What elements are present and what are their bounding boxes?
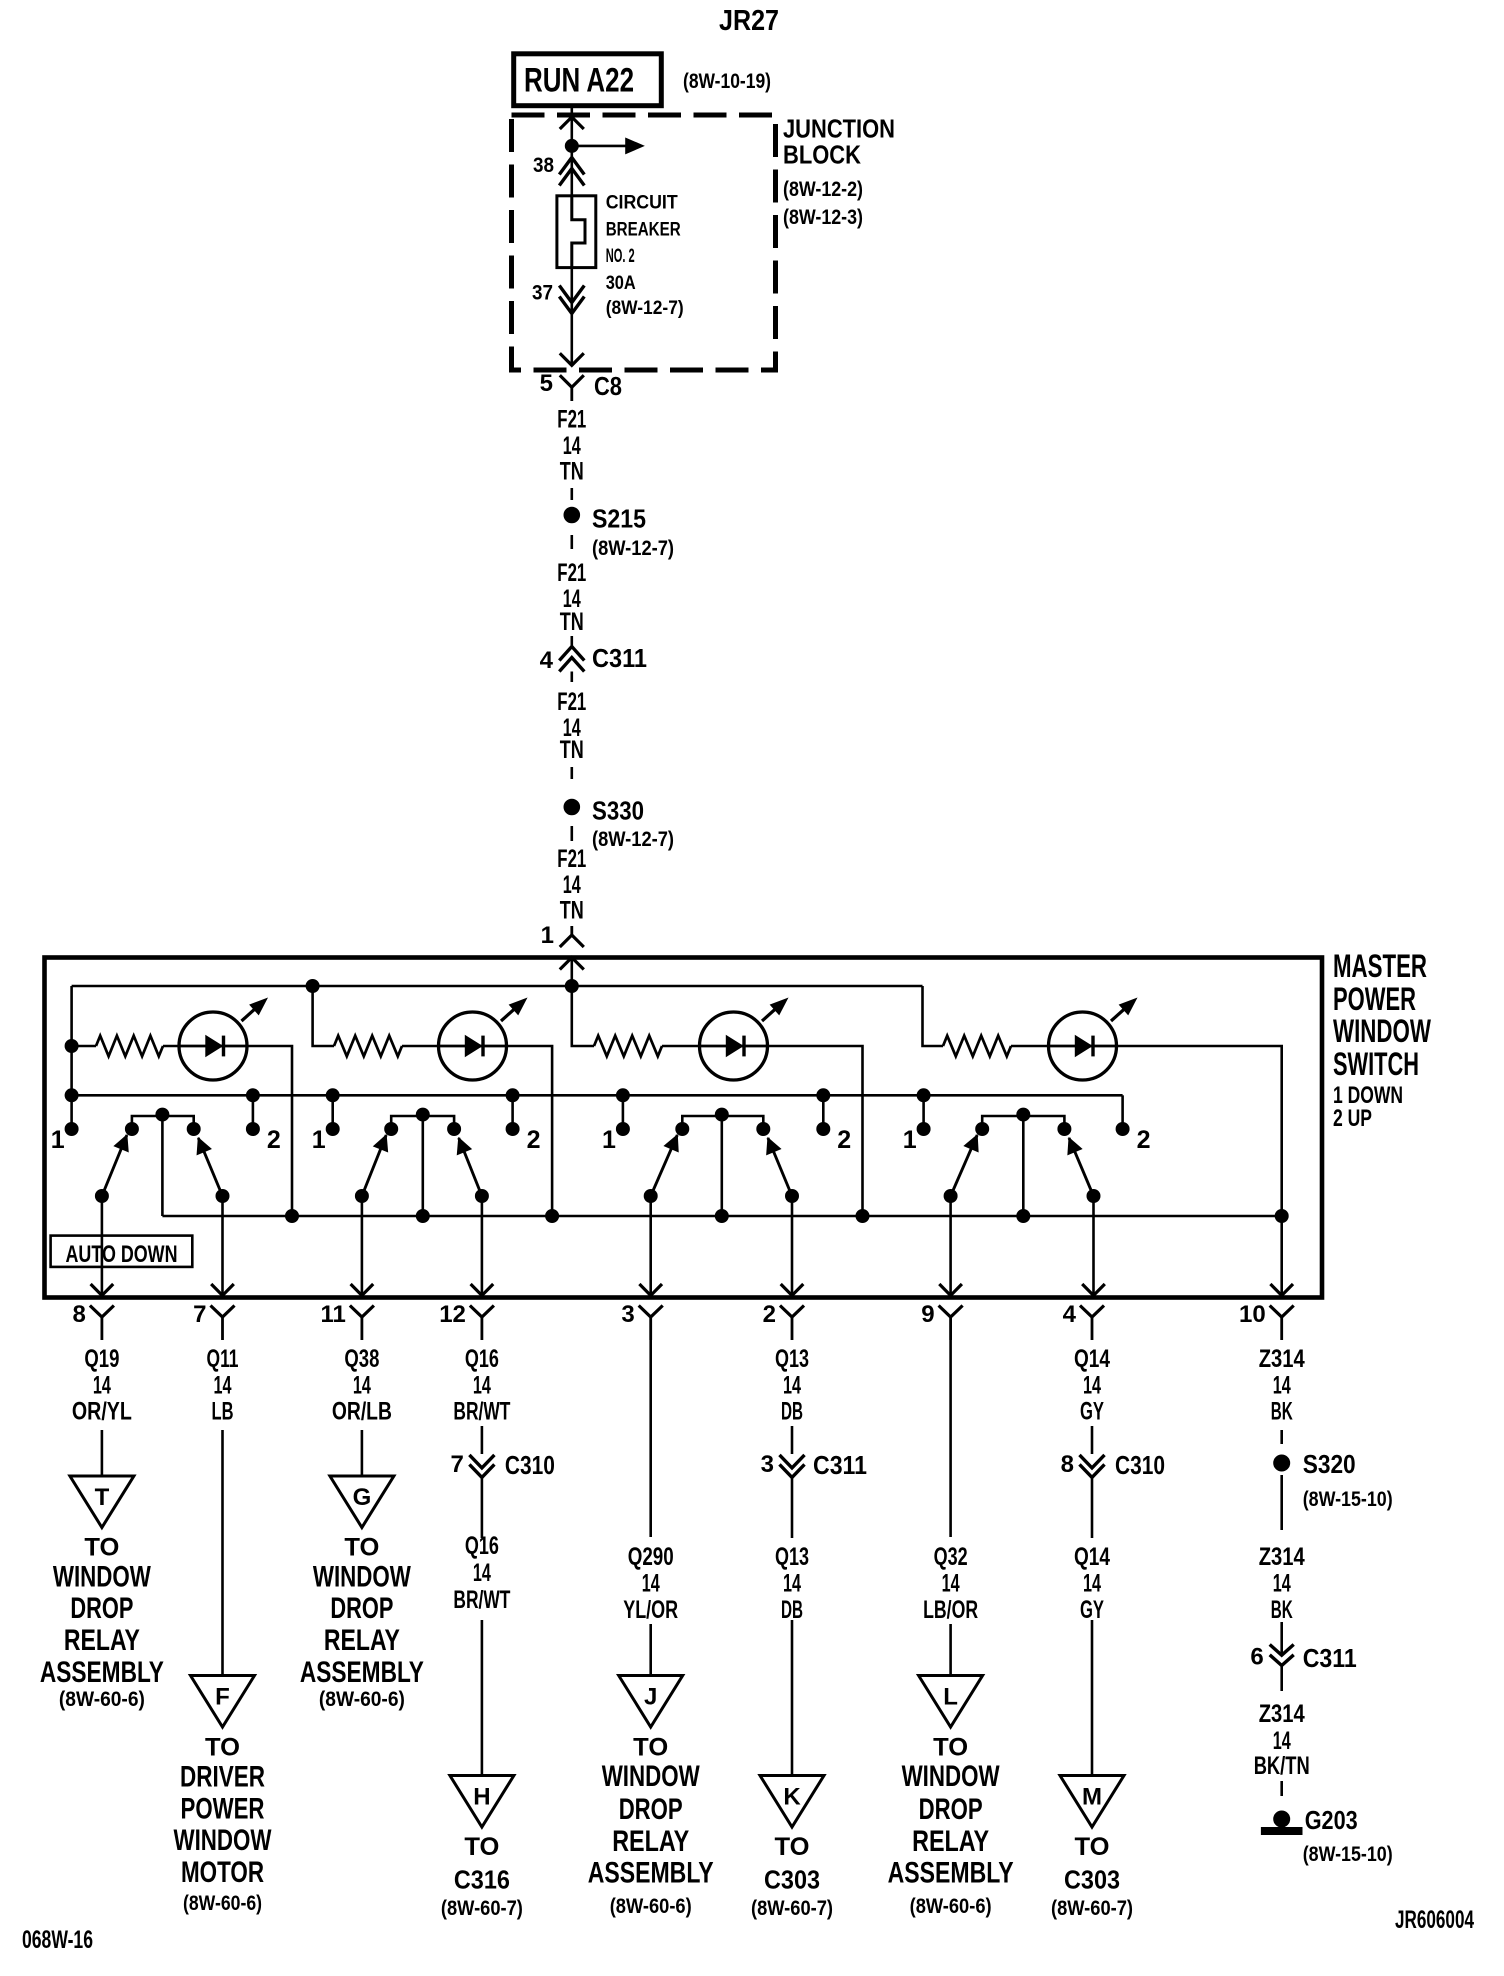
connector pin 9 below switch — [921, 1301, 962, 1340]
contact 1 stub section 4 — [917, 1089, 930, 1129]
wire — [481, 1478, 484, 1538]
svg-text:12: 12 — [439, 1301, 466, 1328]
svg-text:WINDOW: WINDOW — [602, 1760, 701, 1793]
svg-text:2: 2 — [527, 1126, 541, 1154]
wire dash — [570, 488, 573, 500]
svg-text:14: 14 — [563, 871, 581, 899]
wire LED return section 2 — [506, 1046, 553, 1216]
wire resistor to LED section 2 — [402, 1045, 440, 1048]
svg-text:10: 10 — [1239, 1301, 1266, 1328]
svg-text:C8: C8 — [594, 371, 622, 401]
contact 1 section 3 — [602, 1123, 629, 1155]
LED indicator section 1 — [179, 998, 267, 1080]
svg-text:14: 14 — [473, 1372, 491, 1400]
wiper left section 1 — [91, 1135, 129, 1296]
svg-text:BR/WT: BR/WT — [453, 1586, 510, 1614]
LED indicator section 4 — [1049, 998, 1137, 1080]
wire dash — [1280, 1430, 1283, 1444]
connector pin 8 below switch — [73, 1301, 114, 1340]
svg-text:2: 2 — [763, 1301, 776, 1328]
svg-text:(8W-12-7): (8W-12-7) — [592, 828, 674, 851]
svg-text:(8W-12-3): (8W-12-3) — [783, 206, 863, 229]
wire label F21 14 TN — [557, 559, 586, 636]
wire — [481, 1426, 484, 1454]
svg-text:7: 7 — [193, 1301, 206, 1328]
connector F — [191, 1676, 255, 1728]
wiper right section 1 — [197, 1138, 234, 1296]
wire — [649, 1340, 652, 1537]
wiper left section 2 — [351, 1135, 388, 1296]
svg-text:BK/TN: BK/TN — [1254, 1752, 1310, 1780]
svg-text:GY: GY — [1080, 1596, 1104, 1624]
svg-text:F: F — [215, 1684, 230, 1711]
svg-text:F21: F21 — [557, 559, 586, 587]
svg-text:C310: C310 — [1115, 1450, 1165, 1480]
contact 2 stub section 4 (bus end) — [1121, 1095, 1124, 1129]
destination window drop relay assembly (T) — [40, 1534, 164, 1712]
node top bus section 3 — [565, 980, 578, 993]
wire — [1091, 1426, 1094, 1454]
node resistor tap section 1 — [65, 1040, 78, 1053]
top supply bus inside switch — [72, 985, 923, 988]
svg-text:(8W-15-10): (8W-15-10) — [1303, 1488, 1393, 1511]
wire label Z314 14 BK — [1259, 1543, 1305, 1624]
svg-text:C311: C311 — [1303, 1643, 1357, 1673]
node LED return on lower bus section 1 — [286, 1210, 299, 1223]
svg-text:G203: G203 — [1305, 1805, 1358, 1835]
svg-text:WINDOW: WINDOW — [313, 1561, 412, 1594]
contact 2 section 4 — [1116, 1123, 1150, 1155]
wire — [949, 1624, 952, 1676]
node LED return on lower bus section 2 — [546, 1210, 559, 1223]
svg-text:WINDOW: WINDOW — [53, 1561, 152, 1594]
svg-text:NO. 2: NO. 2 — [606, 246, 635, 267]
wire label Q290 14 YL/OR — [623, 1543, 678, 1624]
contact 2 stub section 3 — [817, 1089, 830, 1129]
wiper right section 2 — [457, 1138, 493, 1296]
wire label Q16 14 BR/WT — [453, 1532, 510, 1614]
svg-text:Q16: Q16 — [465, 1345, 499, 1373]
svg-text:DROP: DROP — [919, 1793, 983, 1826]
wire — [1091, 1620, 1094, 1776]
svg-text:14: 14 — [1273, 1372, 1291, 1400]
wiper right section 4 — [1068, 1138, 1105, 1296]
svg-text:LB/OR: LB/OR — [923, 1596, 978, 1624]
drawing number JR606004 — [1395, 1906, 1474, 1934]
svg-text:14: 14 — [783, 1372, 801, 1400]
svg-text:RELAY: RELAY — [612, 1825, 689, 1858]
svg-text:DROP: DROP — [70, 1592, 133, 1625]
svg-text:11: 11 — [321, 1301, 346, 1328]
connector pin 7 below switch — [193, 1301, 234, 1340]
svg-text:14: 14 — [214, 1372, 232, 1400]
wire — [481, 1620, 484, 1776]
svg-text:C303: C303 — [764, 1865, 820, 1895]
svg-text:14: 14 — [942, 1570, 960, 1598]
svg-text:RELAY: RELAY — [912, 1825, 989, 1858]
splice S320 — [1274, 1449, 1393, 1511]
connector pin 11 below switch — [321, 1301, 374, 1340]
svg-text:Q14: Q14 — [1074, 1543, 1110, 1571]
svg-text:Z314: Z314 — [1259, 1543, 1305, 1571]
connector C311 pin 4 — [540, 636, 647, 682]
wire feed section 3 — [572, 986, 594, 1046]
svg-text:(8W-60-6): (8W-60-6) — [183, 1892, 262, 1915]
wire — [1280, 1666, 1283, 1691]
connector L — [919, 1676, 983, 1728]
wire — [1091, 1478, 1094, 1538]
svg-text:6: 6 — [1250, 1644, 1263, 1671]
bridge common to lower bus section 2 — [416, 1116, 429, 1223]
connector C311 pin 6 — [1250, 1643, 1356, 1673]
svg-text:4: 4 — [1063, 1301, 1077, 1328]
svg-text:TO: TO — [344, 1534, 379, 1562]
svg-text:H: H — [473, 1784, 490, 1811]
svg-text:LB: LB — [212, 1398, 234, 1426]
circuit breaker No. 2 30A — [557, 193, 684, 319]
svg-text:F21: F21 — [557, 688, 586, 716]
junction block label — [783, 114, 895, 229]
resistor section 3 — [594, 1036, 662, 1057]
svg-text:C311: C311 — [592, 643, 647, 673]
svg-text:3: 3 — [621, 1301, 634, 1328]
wire label Q32 14 LB/OR — [923, 1543, 978, 1624]
svg-text:14: 14 — [473, 1559, 491, 1587]
wire label Q14 14 GY — [1074, 1345, 1110, 1426]
wiper left section 4 — [939, 1135, 978, 1296]
svg-text:BK: BK — [1271, 1398, 1293, 1426]
bridge common to lower bus section 4 — [1017, 1116, 1030, 1223]
destination C303 (K) — [751, 1833, 833, 1920]
svg-text:Q290: Q290 — [628, 1543, 674, 1571]
bridge common to lower bus section 3 — [715, 1116, 728, 1223]
contact 2 section 2 — [506, 1123, 540, 1155]
wire feed section 4 — [923, 986, 944, 1046]
wire — [1280, 1622, 1283, 1654]
connector pin 12 below switch — [439, 1301, 494, 1340]
wire — [361, 1430, 364, 1476]
svg-text:Q38: Q38 — [344, 1345, 379, 1373]
splice S330 — [564, 796, 674, 852]
svg-text:Z314: Z314 — [1259, 1700, 1305, 1728]
node LED return on lower bus section 3 — [856, 1210, 869, 1223]
svg-text:(8W-60-6): (8W-60-6) — [319, 1688, 405, 1711]
svg-text:WINDOW: WINDOW — [1333, 1013, 1432, 1049]
wire label Q14 14 GY — [1074, 1543, 1110, 1624]
wire — [221, 1430, 224, 1676]
svg-text:Q14: Q14 — [1074, 1345, 1110, 1373]
svg-text:Q32: Q32 — [934, 1543, 968, 1571]
connector C310 pin 7 — [451, 1450, 555, 1480]
svg-text:TO: TO — [84, 1534, 119, 1562]
svg-text:Z314: Z314 — [1259, 1345, 1305, 1373]
svg-text:C310: C310 — [505, 1450, 555, 1480]
ignition switch output RUN A22 — [514, 54, 662, 106]
svg-text:(8W-15-10): (8W-15-10) — [1303, 1843, 1393, 1866]
svg-text:BK: BK — [1271, 1596, 1293, 1624]
wire — [1280, 1475, 1283, 1530]
svg-text:DROP: DROP — [330, 1592, 393, 1625]
svg-text:14: 14 — [783, 1570, 801, 1598]
svg-text:SWITCH: SWITCH — [1333, 1046, 1419, 1082]
wire label F21 14 TN — [557, 406, 586, 486]
wire LED return section 1 — [246, 1046, 292, 1216]
svg-text:(8W-60-6): (8W-60-6) — [610, 1895, 692, 1918]
connector C310 pin 8 — [1061, 1450, 1165, 1480]
svg-text:BR/WT: BR/WT — [453, 1398, 510, 1426]
svg-text:OR/LB: OR/LB — [332, 1398, 392, 1426]
svg-text:37: 37 — [532, 282, 553, 305]
wire label Q11 14 LB — [207, 1345, 239, 1426]
wire label F21 14 TN — [557, 845, 586, 924]
wire label Q13 14 DB — [775, 1345, 809, 1426]
wiper left section 3 — [639, 1135, 678, 1296]
contact 2 stub section 1 — [246, 1089, 259, 1129]
svg-text:068W-16: 068W-16 — [22, 1926, 93, 1954]
contact 1 stub section 3 — [616, 1089, 629, 1129]
svg-text:F21: F21 — [557, 845, 586, 873]
contact 1 section 1 — [51, 1123, 78, 1155]
node bus tap section 1 — [65, 1089, 78, 1102]
connector C8 pin 5 — [540, 370, 622, 401]
svg-text:TN: TN — [560, 608, 584, 636]
wire feed section 2 — [313, 986, 334, 1046]
wire LED return section 4 — [1116, 1046, 1282, 1216]
svg-text:TN: TN — [560, 896, 584, 924]
svg-text:POWER: POWER — [1333, 981, 1416, 1017]
svg-text:Q13: Q13 — [775, 1345, 809, 1373]
svg-text:G: G — [353, 1484, 372, 1511]
connector pin 1 into master switch — [541, 922, 584, 949]
sheet number 068W-16 — [22, 1926, 93, 1954]
title JR27 — [719, 5, 779, 37]
svg-text:TN: TN — [560, 736, 584, 764]
svg-text:BREAKER: BREAKER — [606, 220, 681, 241]
svg-text:(8W-12-7): (8W-12-7) — [592, 537, 674, 560]
wire label Q38 14 OR/LB — [332, 1345, 392, 1426]
svg-text:2 UP: 2 UP — [1333, 1105, 1372, 1132]
connector C311 pin 3 — [761, 1450, 867, 1480]
svg-text:TO: TO — [933, 1734, 968, 1762]
svg-text:14: 14 — [1273, 1727, 1291, 1755]
connector pin 3 below switch — [621, 1301, 662, 1340]
connector G — [330, 1476, 394, 1528]
connector pin 10 below switch — [1239, 1301, 1294, 1340]
wire — [949, 1340, 952, 1537]
connector pin 2 below switch — [763, 1301, 804, 1340]
rocker bridge section 4 — [976, 1108, 1071, 1135]
master power window switch box — [45, 958, 1323, 1298]
svg-text:ASSEMBLY: ASSEMBLY — [300, 1656, 424, 1689]
svg-text:38: 38 — [533, 154, 554, 177]
svg-text:M: M — [1082, 1784, 1102, 1811]
svg-text:8: 8 — [73, 1301, 86, 1328]
svg-text:S320: S320 — [1303, 1449, 1356, 1479]
svg-text:(8W-60-6): (8W-60-6) — [910, 1895, 992, 1918]
svg-text:2: 2 — [267, 1126, 281, 1154]
connector K — [760, 1776, 824, 1828]
svg-text:ASSEMBLY: ASSEMBLY — [40, 1656, 164, 1689]
wire feed section 1 — [72, 986, 96, 1129]
svg-text:RELAY: RELAY — [324, 1624, 400, 1657]
svg-text:TO: TO — [633, 1734, 668, 1762]
svg-text:J: J — [644, 1684, 657, 1711]
LED indicator section 2 — [439, 998, 527, 1080]
bridge common to lower bus section 1 — [161, 1116, 164, 1216]
wire LED return section 3 — [767, 1046, 863, 1216]
svg-text:F21: F21 — [557, 406, 586, 434]
svg-text:CIRCUIT: CIRCUIT — [606, 193, 678, 214]
wire — [791, 1478, 794, 1538]
svg-text:1: 1 — [51, 1126, 65, 1154]
svg-text:5: 5 — [540, 370, 553, 397]
svg-text:(8W-60-7): (8W-60-7) — [751, 1897, 833, 1920]
resistor section 1 — [96, 1036, 163, 1057]
wire resistor to LED section 3 — [662, 1045, 701, 1048]
svg-text:DB: DB — [781, 1398, 803, 1426]
destination window drop relay assembly (J) — [588, 1734, 714, 1918]
wire — [101, 1430, 104, 1476]
svg-text:14: 14 — [1083, 1570, 1101, 1598]
contact 2 section 1 — [246, 1123, 280, 1155]
svg-text:Q16: Q16 — [465, 1532, 499, 1560]
svg-text:POWER: POWER — [181, 1793, 265, 1826]
wire label Z314 14 BK — [1259, 1345, 1305, 1426]
destination C303 (M) — [1051, 1833, 1133, 1920]
connector H — [450, 1776, 514, 1828]
node: junction block feed — [565, 139, 578, 152]
svg-text:Q13: Q13 — [775, 1543, 809, 1571]
svg-text:1: 1 — [602, 1126, 616, 1154]
wire label F21 14 TN — [557, 688, 586, 764]
connector M — [1060, 1776, 1124, 1828]
svg-text:2: 2 — [837, 1126, 851, 1154]
pin 37 with double chevron — [532, 268, 584, 366]
svg-text:BLOCK: BLOCK — [783, 140, 861, 170]
wire resistor to LED section 1 — [163, 1045, 180, 1048]
pin 38 with double chevron — [533, 146, 584, 196]
svg-text:(8W-60-7): (8W-60-7) — [441, 1897, 523, 1920]
svg-text:4: 4 — [540, 647, 554, 674]
node top bus section 2 — [306, 980, 319, 993]
auto down box — [51, 1236, 193, 1268]
wiper right section 3 — [767, 1138, 804, 1296]
node LED return on lower bus section 4 — [1275, 1210, 1288, 1223]
ground G203 — [1261, 1805, 1392, 1866]
svg-text:3: 3 — [761, 1451, 774, 1478]
svg-text:(8W-60-6): (8W-60-6) — [59, 1688, 145, 1711]
junction block dashed box — [512, 115, 776, 370]
reference (8W-10-19) — [683, 70, 771, 93]
wire dash — [570, 767, 573, 779]
svg-text:14: 14 — [1083, 1372, 1101, 1400]
contact 1 stub section 2 — [326, 1089, 339, 1129]
svg-text:DROP: DROP — [619, 1793, 683, 1826]
svg-text:DRIVER: DRIVER — [180, 1760, 265, 1793]
svg-text:DB: DB — [781, 1596, 803, 1624]
svg-text:TO: TO — [775, 1833, 810, 1861]
contact 1 section 4 — [903, 1123, 930, 1155]
wire — [791, 1620, 794, 1776]
svg-text:2: 2 — [1137, 1126, 1151, 1154]
svg-text:T: T — [95, 1484, 110, 1511]
contact 2 section 3 — [817, 1123, 851, 1155]
connector T — [70, 1476, 134, 1528]
wire dash — [1280, 1781, 1283, 1796]
svg-text:MOTOR: MOTOR — [181, 1856, 264, 1889]
wire feed entering box at pin 1 — [560, 958, 584, 987]
wire label Z314 14 BK/TN — [1254, 1700, 1310, 1780]
contact feed bus — [72, 1094, 1123, 1097]
svg-text:ASSEMBLY: ASSEMBLY — [588, 1857, 714, 1890]
svg-text:(8W-12-7): (8W-12-7) — [606, 298, 684, 319]
svg-text:14: 14 — [353, 1372, 371, 1400]
svg-text:YL/OR: YL/OR — [623, 1596, 678, 1624]
master power window switch label — [1333, 948, 1432, 1132]
svg-text:(8W-60-7): (8W-60-7) — [1051, 1897, 1133, 1920]
svg-text:S215: S215 — [592, 503, 646, 533]
rocker bridge section 1 — [125, 1108, 200, 1135]
svg-text:(8W-10-19): (8W-10-19) — [683, 70, 771, 93]
LED indicator section 3 — [700, 998, 788, 1080]
svg-text:RUN A22: RUN A22 — [524, 62, 634, 100]
svg-text:Q19: Q19 — [84, 1345, 119, 1373]
connector J — [619, 1676, 683, 1728]
wire — [649, 1624, 652, 1676]
contact 2 stub section 2 — [506, 1089, 519, 1129]
svg-text:C311: C311 — [813, 1450, 867, 1480]
destination C316 (H) — [441, 1833, 523, 1920]
resistor section 4 — [943, 1036, 1011, 1057]
svg-text:7: 7 — [451, 1451, 464, 1478]
svg-text:1: 1 — [903, 1126, 917, 1154]
svg-text:TN: TN — [560, 458, 584, 486]
svg-text:RELAY: RELAY — [64, 1624, 140, 1657]
svg-text:30A: 30A — [606, 273, 636, 294]
destination window drop relay assembly (L) — [888, 1734, 1014, 1918]
rocker bridge section 2 — [385, 1108, 461, 1135]
svg-text:14: 14 — [563, 432, 581, 460]
svg-text:JR27: JR27 — [719, 5, 779, 37]
splice S215 — [564, 503, 674, 560]
svg-text:C316: C316 — [454, 1865, 510, 1895]
svg-text:MASTER: MASTER — [1333, 948, 1427, 984]
wire exit arrow at junction block bottom — [560, 353, 584, 365]
svg-text:TO: TO — [1075, 1833, 1110, 1861]
destination driver power window motor (F) — [174, 1734, 273, 1915]
svg-text:Q11: Q11 — [207, 1345, 239, 1373]
svg-text:OR/YL: OR/YL — [72, 1398, 132, 1426]
svg-text:TO: TO — [205, 1734, 240, 1762]
pin 10 wire from lower bus to box bottom — [1270, 1216, 1293, 1296]
arrow to other junction block circuits — [572, 138, 644, 153]
svg-text:14: 14 — [93, 1372, 111, 1400]
wire label Q16 14 BR/WT — [453, 1345, 510, 1426]
wire label Q19 14 OR/YL — [72, 1345, 132, 1426]
connector pin 4 below switch — [1063, 1301, 1104, 1340]
lower common bus — [162, 1215, 1281, 1218]
svg-text:ASSEMBLY: ASSEMBLY — [888, 1857, 1014, 1890]
svg-text:S330: S330 — [592, 796, 644, 826]
svg-text:JR606004: JR606004 — [1395, 1906, 1474, 1934]
svg-text:14: 14 — [1273, 1570, 1291, 1598]
svg-text:TO: TO — [464, 1833, 499, 1861]
svg-text:9: 9 — [921, 1301, 934, 1328]
svg-text:L: L — [943, 1684, 958, 1711]
wire label Q13 14 DB — [775, 1543, 809, 1624]
resistor section 2 — [334, 1036, 402, 1057]
rocker bridge section 3 — [676, 1108, 770, 1135]
